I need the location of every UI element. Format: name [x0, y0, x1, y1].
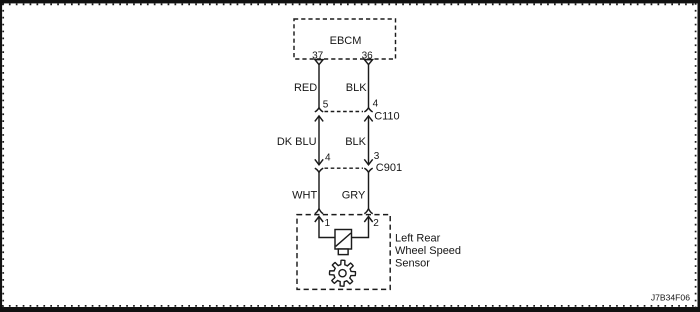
wire BLK segment (upper)	[368, 65, 370, 108]
svg-text:Sensor: Sensor	[395, 257, 430, 269]
svg-text:3: 3	[374, 151, 380, 162]
wire pin2 to sensor element	[352, 217, 369, 238]
frame	[0, 0, 700, 3]
connector C110 pin 5 female terminal	[315, 108, 323, 112]
svg-text:EBCM: EBCM	[330, 35, 362, 47]
svg-text:J7B34F06: J7B34F06	[651, 293, 690, 303]
connector C901 pin 4 female terminal (opening up)	[315, 168, 323, 172]
svg-text:RED: RED	[294, 82, 317, 94]
tone ring gear	[329, 260, 355, 286]
svg-text:Left Rear: Left Rear	[395, 233, 441, 245]
svg-text:37: 37	[312, 51, 324, 62]
svg-text:4: 4	[373, 99, 379, 110]
svg-text:WHT: WHT	[292, 190, 317, 202]
svg-text:C110: C110	[374, 111, 399, 123]
sensor box dashed outline	[297, 215, 390, 290]
svg-text:36: 36	[362, 51, 374, 62]
connector C901 pin 4 male arrow (down)	[315, 159, 323, 165]
svg-text:C901: C901	[376, 162, 402, 174]
wire GRY segment	[368, 172, 370, 208]
sensor connector pin 1 male arrow	[315, 217, 323, 223]
pin 36 terminal triangle	[364, 60, 372, 65]
svg-text:5: 5	[323, 100, 329, 111]
connector C110 pin 4 female terminal	[364, 108, 372, 112]
sensor connector pin 2 female terminal	[364, 209, 372, 214]
wire BLK segment (middle)	[368, 116, 370, 165]
sensor element body	[335, 230, 352, 250]
sensor element diagonal	[336, 233, 351, 246]
sensor connector pin 2 male arrow	[364, 217, 372, 223]
svg-text:GRY: GRY	[342, 190, 366, 202]
connector C901 dashed tie line	[325, 167, 364, 169]
pin 37 terminal triangle	[315, 60, 323, 65]
wire pin1 to sensor element	[319, 217, 335, 238]
connector C901 pin 3 male arrow (down)	[364, 159, 372, 165]
connector C110 dashed tie line	[325, 111, 364, 113]
svg-text:Wheel Speed: Wheel Speed	[395, 245, 461, 257]
connector C110 pin 5 male arrow	[315, 116, 323, 122]
svg-text:BLK: BLK	[346, 82, 367, 94]
connector C110 pin 4 male arrow	[364, 116, 372, 122]
svg-text:BLK: BLK	[345, 136, 366, 148]
sensor element tab	[338, 249, 348, 255]
wire RED segment	[318, 65, 320, 108]
wire WHT segment	[318, 172, 320, 208]
connector C901 pin 3 female terminal (opening up)	[364, 168, 372, 172]
svg-text:1: 1	[325, 218, 331, 229]
svg-text:4: 4	[325, 152, 331, 163]
wire DK BLU segment	[318, 116, 320, 165]
svg-text:2: 2	[373, 218, 379, 229]
sensor connector pin 1 female terminal	[315, 209, 323, 214]
module EBCM box	[294, 19, 396, 59]
svg-text:DK BLU: DK BLU	[277, 136, 317, 148]
